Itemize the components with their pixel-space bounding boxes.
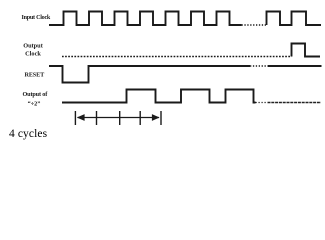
svg-text:4 cycles: 4 cycles <box>9 128 48 140</box>
measurement arrow right end bar <box>160 111 162 125</box>
wire divider output dotted tail <box>256 102 268 104</box>
svg-text:“÷2”: “÷2” <box>28 101 41 108</box>
measurement arrow right head <box>152 114 160 121</box>
measurement arrow tick 3 <box>119 111 121 125</box>
svg-text:Output of: Output of <box>23 91 49 98</box>
wire output clock pulse <box>292 44 321 57</box>
measurement arrow left head <box>77 114 85 121</box>
wire input clock second group <box>267 12 322 26</box>
wire divider output waveform <box>62 90 256 103</box>
svg-text:RESET: RESET <box>25 72 46 79</box>
measurement arrow tick 2 <box>96 111 98 125</box>
wire reset waveform <box>49 66 250 83</box>
wire input clock dotted break <box>242 24 267 26</box>
wire output clock dotted low <box>62 56 292 58</box>
wire reset dotted break <box>250 65 268 67</box>
svg-text:Output: Output <box>23 43 44 50</box>
wire divider output low continuation <box>268 102 322 104</box>
svg-text:Input Clock: Input Clock <box>22 15 51 21</box>
wire reset high right <box>268 65 322 67</box>
svg-text:Clock: Clock <box>25 51 41 58</box>
measurement arrow tick 4 <box>139 111 141 125</box>
measurement arrow 4 cycles: left end bar <box>74 111 76 125</box>
wire input clock waveform <box>49 12 242 26</box>
measurement arrow shaft <box>78 117 160 119</box>
